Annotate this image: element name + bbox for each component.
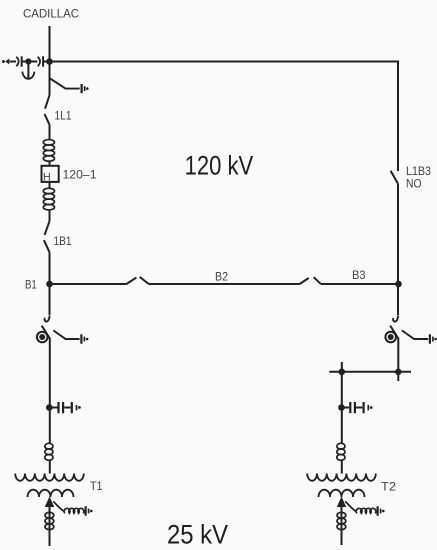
wire: T2 low side feeder [341, 507, 343, 545]
ground symbol (T1 neutral) [86, 506, 93, 515]
ground symbol (left breaker grounding switch) [81, 334, 88, 343]
disconnect switch 1B1 [44, 221, 50, 252]
ground symbol (T2 neutral) [378, 506, 385, 515]
wire: tie cross line to T2 riser [329, 371, 411, 373]
svg-text:B2: B2 [215, 270, 228, 283]
wire: left lead segment 1 [10, 61, 16, 63]
wire: bus segment B2 [149, 283, 300, 285]
svg-text:25 kV: 25 kV [167, 520, 228, 550]
wire: drain lead down [27, 62, 29, 79]
node: T2 arrester tap [338, 404, 345, 411]
wire: left lead segment 3 [28, 61, 37, 63]
wire: 1L1 to upper reactor [49, 125, 51, 140]
ground symbol (right breaker grounding switch) [430, 334, 437, 343]
node: top bus junction [46, 58, 53, 65]
wire: T2 riser (with overshoot above junction) [341, 362, 343, 408]
wire [49, 161, 51, 165]
wire: left lead segment 4 [44, 61, 50, 63]
surge arrester to ground (T2 feeder) [342, 402, 373, 413]
wire [49, 460, 51, 473]
svg-text:L1B3: L1B3 [406, 165, 431, 178]
transformer T2 primary winding [307, 474, 376, 481]
svg-text:B1: B1 [25, 278, 37, 291]
wire: breaker to arrester tap (left feeder) [49, 339, 51, 408]
current transformer coil (T2, 3 turns) [337, 443, 345, 460]
svg-text:120 kV: 120 kV [185, 151, 254, 181]
grounding switch blade (right breaker) [402, 330, 428, 339]
neutral grounding reactor coil (T2) [356, 508, 376, 513]
coupling capacitor plate (curved) 2 [38, 57, 40, 66]
transformer T2 secondary winding [319, 490, 365, 497]
svg-text:120–1: 120–1 [63, 168, 97, 182]
transformer T1 primary winding [15, 474, 84, 481]
grounding switch blade (top, at Cadillac bus) [50, 78, 80, 88]
breaker hook contact (left) [45, 316, 50, 322]
neutral grounding reactor lead (T1) [53, 501, 64, 511]
transformer T1 secondary winding [28, 490, 74, 497]
node B1 (bus junction) [46, 281, 53, 288]
coupling capacitor plate (curved) 1 [16, 57, 18, 66]
current transformer coil (T1, 3 turns) [45, 443, 53, 460]
disconnect switch (bus tie B2-B3) [300, 277, 321, 284]
node B3 (bus junction right) [395, 281, 402, 288]
coupling capacitor plate (bar) 1 [21, 56, 23, 66]
wire: right breaker down to tie junction [397, 339, 399, 381]
node: CVT tap junction [25, 58, 31, 64]
circuit breaker blade (left) [42, 326, 51, 339]
drain coil ground (anchor hook) [22, 72, 34, 79]
neutral grounding reactor coil (T1) [64, 508, 84, 513]
node: T1 arrester tap [46, 404, 53, 411]
device H box (line tuner) [42, 166, 59, 182]
wire [49, 182, 51, 189]
secondary reactor coil (T1, 3 turns) [45, 512, 54, 529]
wire: T1 low side feeder [49, 507, 51, 546]
wire: B1 feeder down to breaker contact [49, 284, 51, 315]
svg-text:T2: T2 [381, 479, 396, 493]
neutral grounding reactor lead (T2) [345, 501, 356, 511]
disconnect switch L1B3 (right tie) [391, 171, 398, 184]
LTC arrow (T2) [337, 496, 346, 507]
svg-text:NO: NO [406, 178, 422, 191]
breaker hook contact (right) [393, 316, 398, 322]
disconnect switch (bus tie B1-B2) [127, 277, 149, 284]
svg-text:1L1: 1L1 [55, 110, 72, 123]
wire [341, 408, 343, 444]
wire: incoming line below CADILLAC down to switch 1L1 [49, 26, 51, 95]
wire: left lead segment 2 [23, 61, 29, 63]
wire: bus segment B1 side [50, 283, 127, 285]
wire: bus segment B3 [321, 283, 399, 285]
wire [49, 408, 51, 444]
circuit breaker (left, circle with dot) [37, 332, 48, 343]
secondary reactor coil (T2, 3 turns) [337, 512, 346, 529]
LTC arrow (T1) [45, 496, 54, 507]
line terminal dot (far left) [2, 60, 5, 63]
reactor coil upper (4 turns) [43, 140, 54, 162]
surge arrester to ground (T1 feeder) [49, 402, 81, 413]
circuit breaker (right, circle with dot) [385, 332, 396, 343]
line terminal arrowhead [5, 59, 9, 65]
wire [341, 460, 343, 473]
reactor coil lower (4 turns) [43, 188, 54, 210]
ground symbol (top grounding switch) [82, 84, 89, 93]
coupling capacitor plate (bar) 2 [42, 56, 44, 66]
wire: top tie line to the right corner [50, 62, 399, 172]
svg-text:CADILLAC: CADILLAC [23, 6, 79, 20]
wire: B3 feeder down to breaker contact (right) [397, 284, 399, 315]
node: tie junction right [395, 369, 402, 376]
disconnect switch 1L1 [45, 95, 50, 125]
svg-text:B3: B3 [352, 269, 366, 282]
wire: right riser L1B3 to bus B3 [397, 184, 399, 284]
node: T2 riser top junction [339, 369, 346, 376]
wire: 1B1 down to bus B1 [49, 252, 51, 284]
grounding switch blade (left breaker) [53, 330, 79, 339]
svg-text:1B1: 1B1 [54, 235, 72, 248]
wire [49, 210, 51, 221]
circuit breaker blade (right) [390, 326, 399, 339]
svg-text:T1: T1 [90, 479, 103, 493]
